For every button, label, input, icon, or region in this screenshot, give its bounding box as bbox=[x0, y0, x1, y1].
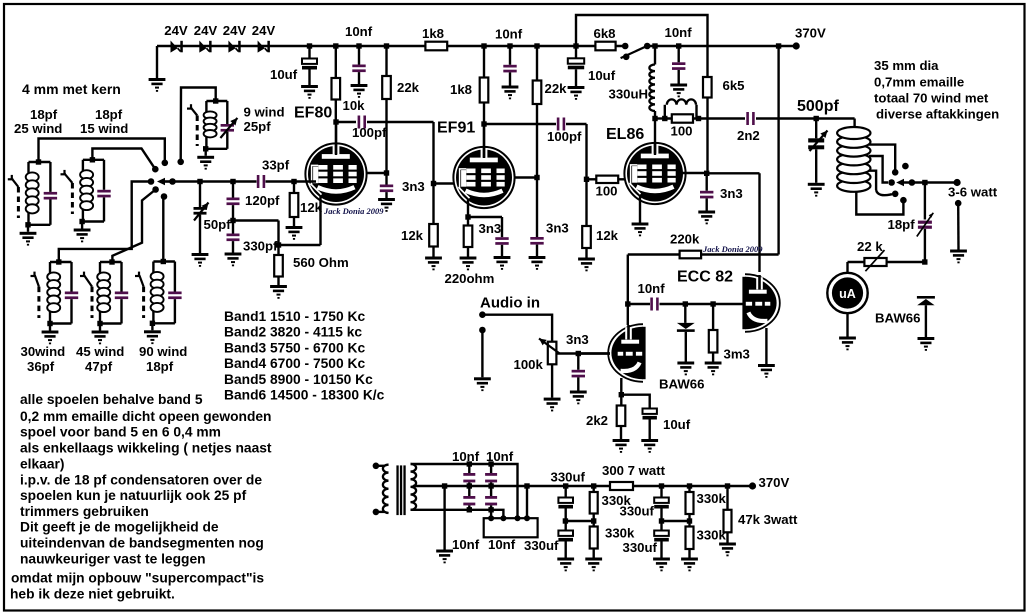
svg-text:Band2 3820 - 4115 kc: Band2 3820 - 4115 kc bbox=[224, 325, 362, 340]
wire EL86 anode lead bbox=[654, 119, 656, 156]
svg-text:15 wind: 15 wind bbox=[80, 121, 128, 136]
switch lever bbox=[8, 178, 14, 180]
svg-text:12k: 12k bbox=[300, 200, 323, 215]
svg-text:nauwkeuriger vast te leggen: nauwkeuriger vast te leggen bbox=[20, 552, 206, 567]
wire tank loop bbox=[206, 100, 227, 102]
wire antenna output bbox=[922, 180, 927, 185]
potentiometer 100k bbox=[548, 342, 557, 365]
resistor 22k EF80 screen bbox=[384, 43, 389, 48]
svg-text:10uf: 10uf bbox=[270, 67, 298, 82]
node EL86 anode bbox=[652, 116, 657, 121]
resistor 22k variable bbox=[887, 261, 925, 263]
svg-text:ECC 82: ECC 82 bbox=[677, 269, 733, 286]
wire secondary top AC bbox=[411, 464, 518, 518]
node top bbox=[36, 159, 41, 164]
tube ECC82 half bbox=[608, 324, 645, 382]
wire screen to ECC82 anode node bbox=[707, 172, 760, 174]
wire pot wiper bbox=[557, 352, 611, 354]
capacitor 10uf cathode bbox=[621, 395, 649, 409]
capacitor 10nf bridge 2 bbox=[488, 461, 493, 466]
wire 220k to grid node bbox=[627, 255, 629, 326]
svg-text:elkaar): elkaar) bbox=[20, 456, 65, 471]
node meter junction bbox=[922, 259, 927, 264]
node bottom bbox=[150, 321, 155, 326]
svg-text:24V: 24V bbox=[223, 23, 247, 38]
resistor 300 7 watt bbox=[610, 482, 633, 490]
resistor 6k8 bbox=[595, 42, 615, 51]
meter uA bbox=[846, 262, 848, 273]
svg-text:0,7mm emaille: 0,7mm emaille bbox=[874, 75, 964, 90]
node top bbox=[109, 259, 114, 264]
switch on rail bbox=[622, 43, 629, 50]
resistor 6k5 bbox=[706, 77, 708, 171]
capacitor 10nf rail B bbox=[507, 43, 512, 48]
svg-text:100pf: 100pf bbox=[352, 125, 387, 140]
svg-text:3n3: 3n3 bbox=[720, 186, 743, 201]
svg-text:500pf: 500pf bbox=[797, 98, 839, 115]
svg-text:330pf: 330pf bbox=[243, 239, 278, 254]
svg-text:18pf: 18pf bbox=[95, 107, 123, 122]
switch lever bbox=[187, 107, 193, 109]
wire top bypass to 6k5 bbox=[576, 15, 708, 77]
resistor 220k bbox=[628, 253, 680, 255]
svg-text:10nf: 10nf bbox=[345, 24, 373, 39]
coil bbox=[47, 272, 60, 281]
svg-text:330uf: 330uf bbox=[623, 540, 658, 555]
svg-text:36pf: 36pf bbox=[27, 359, 55, 374]
capacitor bbox=[115, 292, 128, 295]
svg-text:330k: 330k bbox=[697, 491, 727, 506]
wire band4 tank to contact bbox=[59, 182, 151, 263]
svg-text:24V: 24V bbox=[164, 23, 188, 38]
resistor 330k B1 bbox=[591, 483, 596, 488]
wire tank loop bbox=[83, 159, 104, 161]
terminal Audio in bbox=[479, 311, 486, 318]
tube EL86 bbox=[624, 143, 685, 204]
svg-text:10nf: 10nf bbox=[488, 537, 516, 552]
diode D3 24V bbox=[228, 41, 235, 53]
node bottom bbox=[203, 146, 208, 151]
rotary switch wiper bbox=[169, 178, 176, 185]
contact band6 bbox=[161, 193, 168, 200]
svg-text:6k5: 6k5 bbox=[723, 78, 745, 93]
capacitor 100pf coupling EF80-EF91 bbox=[336, 121, 356, 123]
wire EL86 cathode ground bbox=[639, 196, 641, 223]
resistor 100 EL86 grid bbox=[596, 176, 618, 183]
svg-text:als enkellaags wikkeling ( net: als enkellaags wikkeling ( netjes naast bbox=[20, 441, 272, 456]
resistor 560 Ohm bbox=[274, 255, 283, 277]
svg-text:trimmers gebruiken: trimmers gebruiken bbox=[20, 504, 149, 519]
svg-text:24V: 24V bbox=[252, 23, 276, 38]
node bottom bbox=[79, 219, 84, 224]
capacitor 120pf bbox=[230, 179, 235, 184]
node bottom bbox=[97, 321, 102, 326]
svg-text:33pf: 33pf bbox=[262, 158, 290, 173]
bridge rectifier block bbox=[484, 518, 538, 537]
capacitor 3n3 audio bbox=[577, 354, 579, 370]
resistor 47k 3watt bbox=[725, 483, 730, 488]
switch lever bbox=[61, 173, 67, 175]
capacitor 330uf C bbox=[659, 483, 664, 488]
selector wiper arrow bbox=[896, 179, 904, 186]
resistor 220ohm bbox=[464, 226, 473, 248]
wire tank loop bbox=[153, 260, 175, 262]
tube EF80 bbox=[305, 143, 366, 204]
coil bbox=[26, 172, 39, 181]
svg-text:370V: 370V bbox=[795, 26, 826, 41]
switch lever bbox=[135, 275, 141, 277]
wire EL86 screen bbox=[682, 172, 708, 174]
node top bbox=[56, 259, 61, 264]
capacitor bbox=[97, 190, 110, 193]
wire EF80 screen bbox=[363, 172, 387, 174]
svg-text:370V: 370V bbox=[759, 475, 790, 490]
capacitor bbox=[168, 292, 181, 295]
svg-text:heb ik deze niet gebruikt.: heb ik deze niet gebruikt. bbox=[10, 586, 175, 601]
contact band1 bbox=[162, 160, 169, 167]
capacitor 3n3 EF91 cathode bbox=[468, 216, 502, 218]
ground bbox=[27, 225, 29, 232]
svg-text:2n2: 2n2 bbox=[737, 128, 760, 143]
resistor 12k EL86 grid leak bbox=[582, 226, 591, 248]
switch lever bbox=[31, 275, 37, 277]
svg-text:Jack Donia 2009: Jack Donia 2009 bbox=[702, 244, 763, 254]
wire EF80 grid bbox=[291, 179, 296, 184]
svg-text:18pf: 18pf bbox=[888, 217, 916, 232]
svg-text:9 wind: 9 wind bbox=[244, 105, 285, 120]
contact band4 bbox=[148, 178, 155, 185]
resistor 330k D2 bbox=[686, 527, 694, 550]
ground rail left bbox=[156, 46, 158, 78]
svg-text:22 k: 22 k bbox=[857, 239, 883, 254]
capacitor bbox=[44, 192, 57, 195]
capacitor 330uf A bbox=[563, 483, 568, 488]
svg-text:3n3: 3n3 bbox=[402, 179, 425, 194]
output coil 70 wind bbox=[853, 119, 855, 128]
capacitor 18pf trimmer bbox=[924, 183, 926, 220]
capacitor 330uf A2 bbox=[565, 521, 567, 531]
resistor 2k2 bbox=[620, 395, 622, 406]
svg-text:Band4 6700 - 7500 Kc: Band4 6700 - 7500 Kc bbox=[224, 356, 365, 371]
svg-text:330uf: 330uf bbox=[620, 504, 655, 519]
svg-text:330uH: 330uH bbox=[609, 87, 649, 102]
svg-text:18pf: 18pf bbox=[146, 359, 174, 374]
wire audio to pot bbox=[482, 315, 552, 342]
terminal audio ground bbox=[479, 327, 486, 334]
wire EF91 anode lead bbox=[483, 124, 485, 158]
svg-text:10uf: 10uf bbox=[588, 68, 616, 83]
svg-text:12k: 12k bbox=[401, 228, 424, 243]
node top bbox=[213, 98, 218, 103]
svg-text:100k: 100k bbox=[514, 357, 544, 372]
wire cathode to divider bbox=[233, 219, 279, 221]
contact band3 bbox=[152, 166, 159, 173]
transformer core bbox=[396, 465, 398, 515]
svg-text:330uf: 330uf bbox=[524, 538, 559, 553]
svg-text:10nf: 10nf bbox=[452, 449, 480, 464]
svg-text:0,2 mm emaille dicht opeen gew: 0,2 mm emaille dicht opeen gewonden bbox=[20, 409, 271, 424]
node top bbox=[90, 157, 95, 162]
svg-text:uA: uA bbox=[839, 287, 856, 301]
svg-text:EF80: EF80 bbox=[294, 105, 332, 122]
svg-text:Band3 5750 - 6700 Kc: Band3 5750 - 6700 Kc bbox=[224, 340, 365, 355]
svg-text:3m3: 3m3 bbox=[724, 347, 750, 362]
svg-text:330k: 330k bbox=[697, 528, 727, 543]
svg-text:10nf: 10nf bbox=[665, 25, 693, 40]
ground center tap bbox=[442, 483, 447, 488]
wire tank loop bbox=[29, 161, 51, 163]
svg-text:25 wind: 25 wind bbox=[14, 121, 62, 136]
capacitor 10uf second bbox=[573, 43, 578, 48]
capacitor 10uf first bbox=[307, 43, 312, 48]
switch lever bbox=[80, 275, 86, 277]
wire EF91 screen bbox=[512, 176, 538, 178]
svg-text:EL86: EL86 bbox=[606, 126, 644, 143]
svg-text:10nf: 10nf bbox=[452, 537, 480, 552]
tube ECC82 half bbox=[742, 274, 779, 332]
svg-text:330uf: 330uf bbox=[551, 470, 586, 485]
wire ECC82 left cathode bbox=[620, 378, 622, 395]
resistor 12k EF80 grid bbox=[293, 182, 295, 194]
wire tank loop bbox=[50, 261, 72, 263]
svg-text:100pf: 100pf bbox=[547, 129, 582, 144]
transformer primary coil bbox=[383, 465, 389, 514]
wire oscillator grid line bbox=[164, 180, 257, 182]
antenna ground terminal bbox=[955, 200, 962, 207]
wire B+ to ECC82 anode bbox=[776, 43, 781, 48]
contact band2 bbox=[177, 159, 184, 166]
tube EF91 bbox=[453, 147, 514, 208]
resistor 3m3 bbox=[710, 301, 715, 306]
capacitor bbox=[221, 124, 234, 127]
svg-text:1k8: 1k8 bbox=[450, 82, 472, 97]
wire EL86 grid network bbox=[585, 124, 587, 226]
svg-text:omdat mijn opbouw "supercompac: omdat mijn opbouw "supercompact"is bbox=[11, 571, 264, 586]
svg-text:47k 3watt: 47k 3watt bbox=[738, 512, 798, 527]
svg-text:35 mm dia: 35 mm dia bbox=[874, 58, 939, 73]
svg-text:BAW66: BAW66 bbox=[875, 311, 920, 326]
node bottom bbox=[25, 222, 30, 227]
supply terminal 370V bbox=[793, 42, 800, 49]
transformer secondary coil bbox=[411, 464, 417, 510]
svg-text:25pf: 25pf bbox=[244, 119, 272, 134]
resistor 22k EF91 screen bbox=[534, 43, 539, 48]
svg-text:24V: 24V bbox=[194, 23, 218, 38]
svg-text:45 wind: 45 wind bbox=[76, 344, 124, 359]
svg-text:i.p.v. de 18 pf condensatoren: i.p.v. de 18 pf condensatoren over de bbox=[20, 472, 262, 487]
svg-text:3n3: 3n3 bbox=[566, 332, 589, 347]
transformer primary terminals bbox=[373, 463, 380, 470]
terminal 3-6 watt bbox=[954, 179, 961, 186]
diode BAW66 audio bbox=[683, 301, 688, 306]
svg-text:10uf: 10uf bbox=[663, 417, 691, 432]
wire band1 tank to contact bbox=[39, 139, 165, 163]
capacitor 10nf rail C bbox=[676, 43, 681, 48]
capacitor 100pf EF91-EL86 bbox=[557, 118, 560, 131]
wire band2 tank (9 wind) to contact bbox=[181, 88, 216, 162]
resistor 12k EF91 grid bbox=[429, 224, 438, 247]
diode D2 24V bbox=[199, 41, 206, 53]
antenna selector contacts bbox=[902, 163, 909, 170]
svg-text:1k8: 1k8 bbox=[422, 26, 444, 41]
terminal 370V supply output bbox=[749, 482, 756, 489]
wire EF91 cathode bbox=[467, 199, 469, 218]
wire coil bottom bbox=[856, 192, 903, 215]
suppressor coil 100 bbox=[662, 116, 667, 121]
node EF80 anode bbox=[335, 122, 337, 150]
wire main supply rail bbox=[157, 45, 625, 47]
svg-text:10k: 10k bbox=[343, 98, 366, 113]
wire EF80 cathode bbox=[319, 196, 321, 245]
svg-text:spoelen kun je natuurlijk ook: spoelen kun je natuurlijk ook 25 pf bbox=[20, 488, 247, 503]
ground bbox=[81, 222, 83, 229]
capacitor 3n3 EL86 screen bbox=[706, 173, 708, 191]
resistor 330k D1 bbox=[687, 483, 692, 488]
capacitor 3n3 EF91 screen bbox=[530, 237, 543, 240]
capacitor 3n3 EF80 screen bbox=[380, 185, 393, 188]
coil bbox=[97, 272, 110, 281]
svg-text:10nf: 10nf bbox=[486, 449, 514, 464]
svg-text:22k: 22k bbox=[545, 81, 568, 96]
wire ECC82 left grid bbox=[580, 352, 610, 354]
resistor 10k bbox=[333, 43, 338, 48]
ground bbox=[99, 324, 101, 331]
capacitor 330pf bbox=[227, 234, 240, 237]
wire ECC82 right cathode bbox=[765, 328, 767, 364]
svg-text:3-6 watt: 3-6 watt bbox=[948, 185, 998, 200]
capacitor 10nf bridge 1 bbox=[467, 461, 472, 466]
wire output line to tank bbox=[756, 117, 855, 119]
svg-text:90 wind: 90 wind bbox=[139, 344, 187, 359]
svg-text:Jack Donia 2009: Jack Donia 2009 bbox=[323, 206, 384, 216]
wire to 2n2 bbox=[699, 117, 746, 119]
wire EF80 anode lead bbox=[335, 122, 337, 155]
svg-text:Band6 14500 - 18300 K/c: Band6 14500 - 18300 K/c bbox=[224, 388, 385, 403]
trimmer 25pf arrow bbox=[220, 118, 237, 138]
inductor 330uH bbox=[652, 43, 657, 48]
svg-text:47pf: 47pf bbox=[85, 359, 113, 374]
svg-text:6k8: 6k8 bbox=[594, 26, 616, 41]
svg-text:120pf: 120pf bbox=[245, 193, 280, 208]
svg-text:2k2: 2k2 bbox=[586, 413, 608, 428]
wire band6 tank to contact bbox=[162, 197, 164, 262]
svg-text:totaal 70 wind met: totaal 70 wind met bbox=[874, 91, 989, 106]
capacitor 10nf rail A bbox=[356, 43, 361, 48]
svg-text:Dit geeft je de mogelijkheid d: Dit geeft je de mogelijkheid de bbox=[20, 520, 219, 535]
svg-text:3n3: 3n3 bbox=[479, 221, 502, 236]
svg-text:Band5 8900 - 10150 Kc: Band5 8900 - 10150 Kc bbox=[224, 372, 373, 387]
capacitor 50pf trimmer bbox=[197, 179, 202, 184]
svg-text:diverse aftakkingen: diverse aftakkingen bbox=[876, 107, 999, 122]
svg-text:Audio in: Audio in bbox=[480, 295, 540, 312]
svg-text:30wind: 30wind bbox=[21, 344, 66, 359]
svg-text:300 7 watt: 300 7 watt bbox=[602, 463, 666, 478]
svg-text:12k: 12k bbox=[596, 228, 619, 243]
svg-text:4 mm met kern: 4 mm met kern bbox=[22, 81, 121, 97]
coil bbox=[80, 170, 93, 179]
node EF91 anode bbox=[481, 121, 486, 126]
capacitor 33pf bbox=[257, 175, 260, 188]
svg-text:spoel voor band 5 en 6 0,4 mm: spoel voor band 5 en 6 0,4 mm bbox=[20, 425, 221, 440]
wire bridge output bbox=[524, 483, 529, 488]
svg-text:100: 100 bbox=[596, 184, 618, 199]
ground bbox=[49, 324, 51, 331]
svg-text:uiteindenvan de bandsegmenten: uiteindenvan de bandsegmenten nog bbox=[20, 536, 264, 551]
ground bbox=[204, 149, 206, 156]
wire tank loop bbox=[100, 261, 122, 263]
capacitor bbox=[65, 292, 78, 295]
svg-text:3n3: 3n3 bbox=[546, 221, 569, 236]
coil tap wires bbox=[869, 145, 895, 173]
capacitor 2n2 bbox=[746, 112, 749, 125]
svg-text:10nf: 10nf bbox=[638, 281, 666, 296]
wire secondary center tap / B+ line bbox=[413, 485, 753, 487]
resistor 1k8 series bbox=[425, 42, 447, 51]
svg-text:50pf: 50pf bbox=[204, 217, 232, 232]
svg-text:100: 100 bbox=[671, 124, 693, 139]
svg-text:18pf: 18pf bbox=[30, 107, 58, 122]
svg-text:22k: 22k bbox=[397, 80, 420, 95]
wire secondary bottom AC bbox=[411, 510, 504, 518]
svg-text:alle spoelen behalve band 5: alle spoelen behalve band 5 bbox=[20, 392, 203, 407]
capacitor 500pf variable bbox=[814, 116, 819, 121]
resistor 1k8 EF91 anode bbox=[481, 43, 486, 48]
coil bbox=[151, 272, 164, 281]
capacitor 10nf coupling bbox=[628, 303, 650, 305]
diode D1 24V bbox=[171, 41, 178, 53]
wire band3 tank to contact bbox=[92, 149, 155, 170]
svg-text:BAW66: BAW66 bbox=[659, 377, 704, 392]
resistor 330k B2 bbox=[590, 527, 598, 549]
coil bbox=[204, 111, 217, 118]
node bottom bbox=[47, 321, 52, 326]
svg-text:330k: 330k bbox=[605, 526, 635, 541]
ground bbox=[151, 323, 153, 330]
svg-text:220ohm: 220ohm bbox=[445, 271, 495, 286]
svg-text:10nf: 10nf bbox=[495, 27, 523, 42]
diode D4 24V bbox=[258, 41, 265, 53]
wire EF91 grid drop bbox=[432, 122, 434, 224]
svg-text:220k: 220k bbox=[670, 232, 700, 247]
contact band5 bbox=[152, 186, 159, 193]
wire band5 tank to contact bbox=[112, 190, 155, 263]
svg-text:EF91: EF91 bbox=[437, 120, 475, 137]
svg-text:Band1 1510 - 1750 Kc: Band1 1510 - 1750 Kc bbox=[224, 309, 365, 324]
diode BAW66 meter bbox=[917, 296, 935, 299]
svg-text:560 Ohm: 560 Ohm bbox=[293, 255, 349, 270]
node top bbox=[161, 259, 166, 264]
